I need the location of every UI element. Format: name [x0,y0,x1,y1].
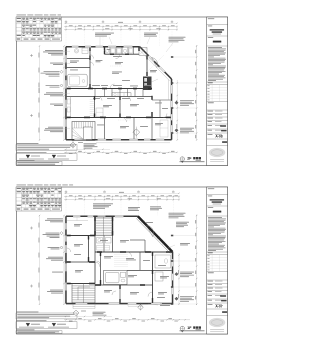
general notes title sheet2 [17,311,39,314]
sheet2 bottom second dim ticks [64,316,112,318]
notes paragraph sheet2 [208,216,222,219]
sheet2 upper annotation cluster A [93,202,113,205]
sheet1 right annotation cluster 2 [175,129,178,132]
date value sheet2 [221,300,227,302]
sheet2 right exterior wall [172,252,174,304]
sheet1 bottom exterior wall [66,139,172,141]
drawing name label sheet1 [208,36,214,39]
sheet1 corridor floor hatch [90,99,95,101]
company logo sheet2 [209,318,225,327]
company address line1 sheet1 [210,158,224,161]
sheet1 washroom counter row [112,93,131,97]
title block sheet2 [207,187,228,334]
title block sheet1 [207,17,228,166]
total sheets value sheet2 [222,311,227,313]
remarks note title sheet2 [17,328,35,331]
file header text sheet2 [17,184,27,187]
sheet1 top band fixtures [106,49,109,53]
sheet2 washroom compartments [103,236,105,253]
sheet1 left rotated dim texts [38,53,41,58]
sheet2 grid drop lines [65,201,67,216]
revision header sheet1 [208,81,213,84]
sheet1 right leader lines [172,56,196,58]
sheet2 section marker diamond [138,305,144,310]
total sheets value sheet1 [222,141,227,143]
legend title sheet1 [17,151,47,154]
sheet2 right leader lines [173,235,196,237]
drawing name text sheet2 [213,211,222,213]
sheet1 cut marker below stairs [70,142,76,147]
sheet1 extra fixtures [96,108,103,117]
drawing title underline sheet2 [180,330,205,332]
sheet2 bottom exterior wall [66,303,173,305]
revision header sheet2 [208,251,213,254]
sheet2 cut marker below stairs [73,310,79,315]
legend title sheet2 [17,319,47,322]
project name text sheet2 [210,199,225,200]
sheet frame sheet2 [16,187,227,334]
notes paragraph sheet1 [208,46,222,49]
scale text sheet1 [196,159,202,162]
title block field rows sheet2 [208,280,214,283]
sheet2 right annotation cluster 2 [175,297,178,300]
revision table grid sheet2 [207,254,228,256]
legend symbol 2 sheet1 [52,155,56,158]
sheet1 right exterior wall [171,79,173,140]
svg-text:A-08: A-08 [215,135,222,139]
title block cell labels sheet2 [208,187,215,190]
sheet2 grid bubbles [65,191,67,193]
general notes box sheet2 [16,313,77,319]
sheet1 balcony edge [96,142,170,144]
sheet2 bottom staircase [72,284,95,303]
sheet1 left dim line inner [63,46,65,140]
sheet1 right dimension line [196,45,198,140]
sheet2 upper annotation cluster C [150,205,161,208]
sheet2 left diamond 2 [60,246,63,249]
company address line1 sheet2 [210,328,224,331]
legend symbol 1 sheet2 [26,323,30,326]
title block field rows sheet1 [208,110,214,113]
sheet1 room label texts [70,60,79,63]
legend symbol 2 sheet2 [52,323,56,326]
svg-text:A-07: A-07 [215,305,222,309]
sheet2 closet strip top room [67,220,88,222]
fitting schedule table sheet1 [16,17,62,41]
general notes title sheet1 [17,142,39,145]
revision table grid sheet1 [207,84,228,86]
sheet1 left diamond 1 [60,70,63,73]
sheet2 below-plan note cluster [93,311,106,314]
sheet1 closet with cross [139,48,147,56]
table bottom merged row sheet1 [17,38,21,39]
sheet1 top dimension lines [64,26,177,28]
sheet1 upper annotation cluster A [95,32,114,35]
sheet1 right annotation cluster 1 [175,101,178,104]
sheet2 diagonal-side annotation cluster [176,221,189,224]
sheet2 inner right dimension line [178,253,180,305]
sheet2 top exterior wall [66,215,138,217]
sheet2 top overall dimension [64,192,179,194]
sheet1 top overall dimension [64,22,177,24]
sheet2 left dimension line [39,216,41,305]
remarks note box sheet2 [16,331,62,334]
table bottom merged row sheet2 [17,208,21,209]
sheet1 bottom dimension line [64,151,177,153]
sheet2 wc fixtures [155,255,171,268]
sheet2 upper annotation cluster B [128,206,140,209]
sheet2 central staircase [95,217,113,236]
drawing title symbol sheet1 [180,157,184,161]
sheet2 corridor floor hatch [114,254,128,256]
sheet2 bottom annotation cluster [160,303,173,306]
sheet2 right annotation cluster 1 [175,272,178,275]
sheet1 left dimension line [39,46,41,140]
sheet2 left rotated dim texts [38,223,41,228]
general notes box sheet1 [16,145,77,151]
sheet1 interior walls [89,48,91,89]
sheet1 right room partitions [152,99,171,101]
sheet1 grid bubbles [65,21,67,23]
remarks note box sheet1 [16,161,62,165]
sheet1 below-plan note cluster [84,142,97,145]
sheet frame sheet1 [16,17,227,166]
scale text sheet2 [196,328,202,331]
sheet2 top dimension lines [64,196,179,198]
sheet1 kitchen counter [143,77,152,91]
date value sheet1 [221,130,227,132]
sheet1 interior wall piers [89,48,90,52]
legend symbol 1 sheet1 [26,155,30,158]
sheet1 washroom fixtures [74,49,78,53]
sheet1 top exterior wall [66,46,140,48]
sheet2 entry porch [73,305,95,307]
sheet2 bathroom unit [104,271,128,285]
title block cell labels sheet1 [208,17,215,20]
sheet1 diagonal exterior wall [140,47,172,79]
sheet2 bottom dimension line [64,319,190,321]
drawing name label sheet2 [208,206,214,209]
sheet2 top dimension numbers [69,194,73,197]
company address line2 sheet2 [210,330,224,333]
sheet2 left exterior wall [65,216,67,303]
scale value sheet2 [220,295,226,297]
remarks label sheet1 [208,101,214,104]
sheet2 door swings [147,226,154,237]
remarks note title sheet1 [17,159,35,162]
sheet2 left diamond 1 [60,232,63,235]
sheet1 left exterior wall [65,47,67,140]
scale value sheet1 [220,125,226,127]
sheet2 right-top annotation cluster [169,212,186,215]
drawing title symbol sheet2 [180,326,184,330]
sheet1 right-top annotation cluster [169,36,186,39]
sheet1 door swings [90,55,94,59]
project name text sheet1 [210,29,225,30]
legend box sheet2 [16,322,77,329]
sheet1 grid drop lines [65,31,67,46]
sheet2 level marks [30,227,33,230]
sheet2 left dim inner [63,216,65,305]
sheet2 interior walls [67,235,95,237]
sheet1 left annotation clusters [45,49,63,52]
sheet1 dashed ceiling lines [110,65,122,67]
sheet2 room labels [74,223,82,226]
drawing name text sheet1 [213,41,222,43]
sheet1 level marks [30,54,33,57]
sheet1 bottom second dim ticks [64,148,110,150]
sheet1 top dimension numbers [69,24,73,27]
sheet1 stair winders [72,131,84,140]
sheet1 bathtub unit [68,74,88,87]
sheet1 inner right dimension line [176,80,178,140]
sheet1 closet strip [70,97,72,118]
sheet2 interior wall piers [88,236,89,240]
sheet2 right dimension line [196,215,198,306]
sheet1 staircase [72,122,95,141]
sheet2 left annotation clusters [47,217,63,220]
sheet1 section marker diamond [133,129,140,136]
sheet2 diagonal hatch ticks [142,220,144,222]
sheet1 left diamond 2 [60,84,63,87]
sheet1 diagonal zone inner line [139,50,169,81]
remarks label sheet2 [208,271,214,274]
company logo sheet1 [209,148,225,157]
drawing title underline sheet1 [180,160,205,162]
fitting schedule table sheet2 [16,187,62,211]
sheet1 upper annotation cluster B [144,32,158,35]
sheet2 heavy diagonal wall [138,216,173,252]
sheet2 extra right cluster [180,242,190,245]
file header text sheet1 [17,14,27,17]
sheet2 terrace edge lines [128,305,142,307]
sheet1 kitchen leader [152,79,159,82]
legend box sheet1 [16,154,77,161]
company address line2 sheet1 [210,160,224,163]
